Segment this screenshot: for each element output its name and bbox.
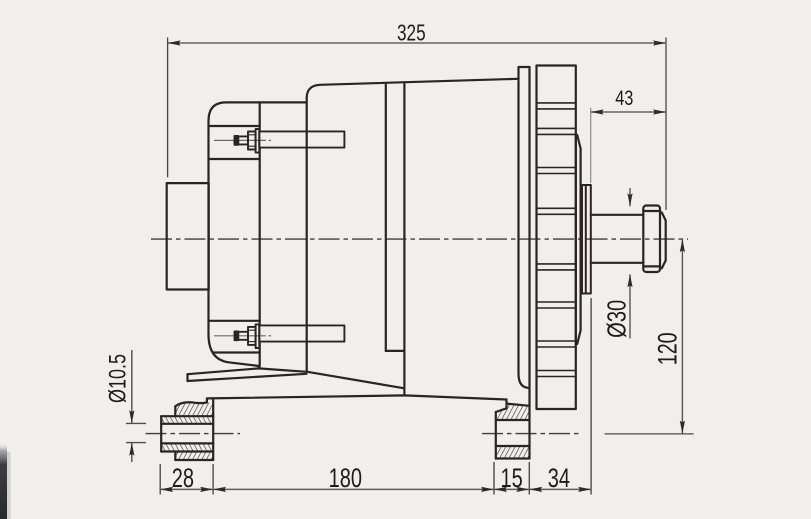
right foot bottom edge <box>496 457 530 459</box>
bolt stud <box>238 136 248 144</box>
extension line left (grey) <box>590 108 592 183</box>
group: dimension 120 <box>681 239 683 434</box>
group: bottom dimensions 28 180 15 34 <box>160 298 591 495</box>
svg-text:28: 28 <box>172 463 194 492</box>
extension line foot left <box>159 464 161 495</box>
shaft bottom line <box>591 262 644 264</box>
svg-text:Ø30: Ø30 <box>602 300 631 338</box>
rear housing boss bottom outer line <box>213 351 259 353</box>
arrow right of 28 / left of 180 <box>200 487 213 492</box>
rear housing left edge with corners <box>209 102 307 368</box>
svg-text:180: 180 <box>329 463 362 492</box>
bracket step at right foot <box>505 400 507 409</box>
right foot hole bottom line <box>496 445 530 447</box>
stator band bottom line <box>386 350 405 352</box>
right foot top hatch <box>496 404 530 420</box>
foot centerline right <box>482 433 582 435</box>
dimension line <box>160 488 591 490</box>
pulley flange plates <box>582 185 591 294</box>
extension line left <box>167 38 169 178</box>
left foot right edge <box>212 398 214 460</box>
extension line flange <box>590 298 592 495</box>
left foot hole top line <box>161 423 213 425</box>
group: through-bolt top <box>214 129 344 153</box>
skirt bottom line <box>188 374 307 381</box>
right foot bottom hatch <box>496 446 530 459</box>
left foot hole bottom line <box>161 442 213 444</box>
bolt washer <box>256 324 260 348</box>
arrow left of 325 <box>168 40 181 45</box>
arrow up of 120 <box>680 239 685 252</box>
group: dimension 43 <box>590 108 592 183</box>
dark smudge artifact bottom-left edge <box>0 443 7 519</box>
main body left edge and sloped top edge <box>307 79 519 371</box>
stator band right line <box>403 84 405 396</box>
rear housing boss top outer line <box>209 125 260 127</box>
left foot sleeve bottom wall hatch <box>161 443 213 451</box>
bracket long bottom line <box>208 395 507 399</box>
shaft end piece <box>660 213 666 269</box>
bolt centerline <box>214 335 266 337</box>
dimension line <box>168 42 666 44</box>
left foot sleeve left edge <box>160 416 162 451</box>
extension line right foot left <box>493 462 495 495</box>
front plate right edge / foot right edge <box>528 67 530 459</box>
extension line right (shared with 43) <box>665 38 667 211</box>
svg-text:34: 34 <box>548 463 570 492</box>
group: main object outlines <box>167 66 666 459</box>
rear housing boss bottom inner line <box>209 320 260 322</box>
foot centerline left <box>146 433 241 435</box>
svg-text:120: 120 <box>654 332 684 365</box>
svg-text:15: 15 <box>500 463 522 492</box>
left foot sleeve top wall hatch <box>161 416 213 424</box>
arrow up of D30 <box>627 274 632 287</box>
group: right foot <box>496 412 530 459</box>
bolt nut <box>248 327 256 345</box>
bolt rod <box>259 131 344 147</box>
group: through-bolt bottom <box>214 324 344 348</box>
left foot bottom edge <box>175 459 213 461</box>
rear housing / stator joint vertical (broken at bolt rods) <box>259 102 261 131</box>
right foot left edge <box>495 412 497 459</box>
rear boss (small box at left) <box>167 183 209 289</box>
bolt stud end cap <box>235 136 239 145</box>
group: dimension 325 <box>168 38 666 211</box>
bolt stud end cap <box>235 331 239 340</box>
right foot bevel <box>496 408 507 412</box>
arrow right of 180 / left of 15 <box>481 487 494 492</box>
arrow right of 34 <box>578 487 591 492</box>
extension line hole top <box>126 422 146 424</box>
bolt washer <box>256 129 260 153</box>
svg-text:325: 325 <box>397 20 426 46</box>
main shaft centerline <box>151 238 688 240</box>
group: dimension D30 <box>629 188 631 339</box>
arrow up of D10.5 <box>129 443 134 456</box>
right foot top edge <box>507 404 530 406</box>
left foot sleeve top line <box>161 415 213 417</box>
arrow down of D30 <box>627 193 632 206</box>
bolt stud <box>238 332 248 340</box>
arrow left of 43 <box>591 109 604 114</box>
skirt top line rear <box>188 368 307 374</box>
extension line of foot axis (for 120 dim) <box>605 433 694 435</box>
svg-text:Ø10.5: Ø10.5 <box>105 354 131 403</box>
shaft nut <box>643 206 660 273</box>
extension line right foot right <box>528 462 530 495</box>
front bracket sloped bottom line <box>307 372 405 389</box>
left foot boss bottom hatch <box>175 452 213 461</box>
skirt left edge <box>186 374 188 381</box>
bolt nut <box>248 132 256 150</box>
left foot boss left edge bottom <box>174 452 176 461</box>
left foot boss top hatch <box>175 402 213 416</box>
right foot hole top line <box>496 419 530 421</box>
arrow down of D10.5 <box>129 410 134 423</box>
extension line foot right <box>212 464 214 495</box>
bolt centerline <box>214 139 266 141</box>
dimension line 43 <box>591 111 666 113</box>
group: left foot <box>161 398 213 460</box>
arrow right of 43 <box>653 109 666 114</box>
fan ribbed strip outline <box>537 66 576 410</box>
stator band left line <box>385 85 387 351</box>
group: dimension D10.5 <box>126 350 146 462</box>
group: fan rib bands <box>537 103 576 377</box>
arrow right of 325 <box>653 40 666 45</box>
left foot boss left edge top <box>174 406 176 416</box>
front plate bottom fillet <box>519 374 530 388</box>
extension line hole bottom <box>126 442 146 444</box>
rear housing boss top inner line <box>209 158 260 160</box>
left foot sleeve bottom line <box>161 450 213 452</box>
shaft top line <box>591 214 644 216</box>
fan hub plate (medium plate with chamfers) <box>576 135 581 344</box>
front plate (tall thin rectangle) <box>519 67 530 374</box>
left foot boss wavy top <box>175 398 207 406</box>
svg-text:43: 43 <box>615 86 633 109</box>
bolt rod <box>259 325 344 341</box>
arrow left of 28 <box>160 487 173 492</box>
arrow right of 15 / left of 34 <box>516 487 529 492</box>
arrow down of 120 <box>680 421 685 434</box>
